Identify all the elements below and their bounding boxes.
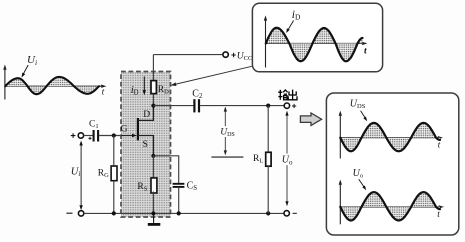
wire RL bottom	[267, 166, 269, 213]
input waveform Ui sine curve	[5, 77, 99, 94]
source node dot	[151, 154, 155, 158]
wire source node to CS	[153, 156, 178, 184]
node dot RL top	[266, 104, 270, 108]
node dot CS bottom	[177, 211, 181, 215]
wire RS to bottom rail	[152, 192, 154, 214]
uo waveform sine curve	[340, 192, 440, 220]
wire gate segment inside box	[121, 135, 135, 137]
JFET drain lead	[138, 106, 154, 121]
Ui voltage double arrow	[79, 141, 82, 211]
JFET channel bar	[137, 118, 139, 140]
node dot RL bottom	[266, 211, 270, 215]
wire drain column up to top rail	[152, 55, 154, 81]
wire G node down to RG	[113, 136, 115, 167]
uDS waveform sine curve	[340, 123, 440, 151]
uDS measurement double arrow	[224, 107, 227, 156]
uo waveform axes	[340, 181, 441, 224]
+UCC supply terminal	[223, 51, 252, 62]
iD waveform rounded box	[252, 3, 382, 72]
JFET source lead	[138, 136, 154, 156]
input waveform Ui label	[22, 54, 38, 78]
resistor RG	[98, 166, 117, 181]
bottom rail wire	[84, 212, 285, 214]
output waveforms rounded box	[326, 93, 458, 235]
capacitor C1	[88, 119, 98, 141]
wire RL top	[267, 106, 269, 153]
top supply rail wire	[153, 54, 223, 56]
node dot RS bottom	[151, 211, 155, 215]
svg-text:D: D	[143, 110, 150, 120]
resistor RL	[253, 152, 271, 166]
drain node dot	[151, 104, 155, 108]
resistor RD	[151, 81, 169, 96]
wire drain node to C2	[153, 105, 193, 107]
wire RD to drain node	[152, 94, 154, 106]
capacitor CS	[173, 180, 198, 192]
iD current arrow	[131, 77, 146, 97]
uDS waveform axes	[340, 114, 440, 159]
uDS waveform label	[350, 98, 367, 121]
node G junction dot	[112, 133, 116, 137]
block arrow to output waveforms	[300, 113, 321, 126]
wire input terminal to C1	[84, 135, 94, 137]
svg-text:S: S	[143, 140, 148, 150]
svg-text:t: t	[364, 47, 367, 57]
svg-text:G: G	[121, 125, 128, 135]
uDS reference bar	[211, 156, 243, 158]
iD waveform axes	[266, 19, 365, 68]
output + terminal	[284, 103, 296, 108]
input waveform Ui axes	[5, 68, 104, 100]
output - terminal	[284, 211, 297, 216]
input terminal - (bottom-left)	[66, 211, 83, 216]
wire C1 to gate	[99, 135, 136, 137]
Uo label	[281, 154, 293, 167]
dashed shaded region box	[121, 72, 171, 218]
Uo voltage double arrow	[285, 111, 288, 207]
wire RG to bottom rail	[113, 181, 115, 214]
wire source node to RS	[152, 156, 154, 178]
callout arrow from iD box to RD	[170, 66, 251, 86]
wire C2 to output terminal	[200, 105, 284, 107]
capacitor C2	[192, 88, 203, 112]
iD waveform sine curve	[266, 28, 363, 62]
iD waveform label	[286, 9, 301, 33]
node dot RG bottom	[112, 211, 116, 215]
wire CS to bottom rail	[178, 187, 180, 214]
uDS label	[219, 126, 235, 138]
resistor RS	[137, 178, 157, 193]
ground symbol	[148, 213, 161, 224]
input terminal + (top-left)	[71, 133, 84, 138]
output label shuchu (Chinese)	[278, 90, 297, 100]
uo waveform label	[353, 168, 367, 190]
JFET gate arrow	[132, 134, 137, 138]
